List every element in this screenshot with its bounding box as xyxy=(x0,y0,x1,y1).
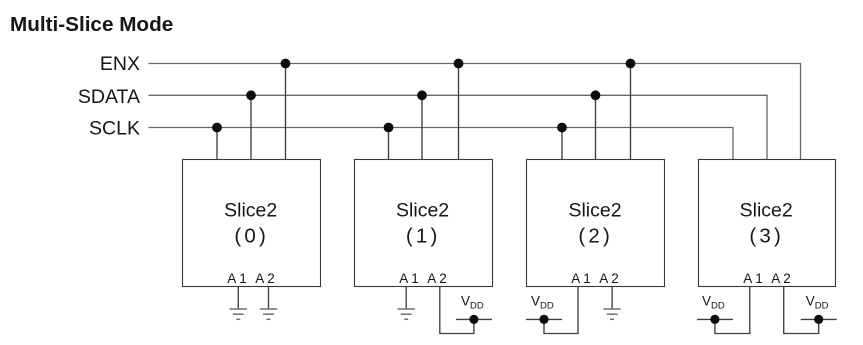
svg-text:Slice2: Slice2 xyxy=(396,199,449,221)
wire ENX pin slice0 xyxy=(285,64,287,160)
svg-text:A 2: A 2 xyxy=(599,271,619,286)
svg-text:SDATA: SDATA xyxy=(78,86,140,108)
wire SDATA bus xyxy=(149,95,768,159)
svg-text:(2): (2) xyxy=(578,224,613,247)
svg-text:A 1: A 1 xyxy=(227,271,247,286)
svg-text:A 1: A 1 xyxy=(743,271,763,286)
wire A2 U2 xyxy=(611,287,613,309)
wire A2 U0 xyxy=(268,287,270,309)
power VDD at A2 U3 xyxy=(801,294,837,325)
svg-text:ENX: ENX xyxy=(100,53,140,75)
svg-text:A 2: A 2 xyxy=(255,271,275,286)
junction SDATA slice0 xyxy=(246,90,256,100)
svg-text:V: V xyxy=(806,294,815,309)
junction SCLK slice0 xyxy=(212,123,222,133)
svg-text:DD: DD xyxy=(711,301,725,312)
wire SCLK bus xyxy=(149,128,734,160)
wire SDATA pin slice0 xyxy=(250,95,252,159)
wire SCLK pin slice1 xyxy=(388,128,390,160)
power VDD at A2 U1 xyxy=(456,294,492,325)
svg-text:SCLK: SCLK xyxy=(89,117,140,139)
junction ENX slice0 xyxy=(281,59,291,69)
wire A1 U2 to VDD xyxy=(544,287,578,334)
junction SDATA slice2 xyxy=(591,90,601,100)
svg-text:V: V xyxy=(531,294,540,309)
ground A1 U0 xyxy=(230,309,247,319)
wire ENX pin slice1 xyxy=(458,64,460,160)
junction ENX slice2 xyxy=(626,59,636,69)
junction SCLK slice1 xyxy=(384,123,394,133)
power VDD at A1 U2 xyxy=(526,294,562,325)
svg-text:Slice2: Slice2 xyxy=(568,199,621,221)
svg-text:Slice2: Slice2 xyxy=(740,199,793,221)
power VDD at A1 U3 xyxy=(697,294,733,325)
svg-text:(3): (3) xyxy=(749,224,784,247)
svg-text:(1): (1) xyxy=(406,224,441,247)
wire ENX bus xyxy=(149,64,801,160)
wire A2 U3 to VDD xyxy=(784,287,819,334)
svg-text:A 1: A 1 xyxy=(571,271,591,286)
junction ENX slice1 xyxy=(454,59,464,69)
svg-text:A 2: A 2 xyxy=(427,271,447,286)
block U3 Slice2 (3) xyxy=(699,160,836,287)
block U0 Slice2 (0) xyxy=(183,160,321,287)
svg-text:V: V xyxy=(461,294,470,309)
ground A1 U1 xyxy=(398,309,415,319)
svg-text:DD: DD xyxy=(815,301,829,312)
wire SDATA pin slice2 xyxy=(595,95,597,159)
svg-text:Slice2: Slice2 xyxy=(224,199,277,221)
wire A1 U3 to VDD xyxy=(715,287,750,334)
junction SDATA slice1 xyxy=(417,90,427,100)
wire SCLK pin slice0 xyxy=(216,128,218,160)
wire SCLK pin slice2 xyxy=(561,128,563,160)
ground A2 U2 xyxy=(603,309,620,319)
wire ENX pin slice2 xyxy=(630,64,632,160)
wire A2 U1 to VDD xyxy=(440,287,474,334)
svg-text:DD: DD xyxy=(470,301,484,312)
svg-text:A 2: A 2 xyxy=(771,271,791,286)
svg-text:(0): (0) xyxy=(234,224,269,247)
svg-text:A 1: A 1 xyxy=(399,271,419,286)
svg-text:V: V xyxy=(702,294,711,309)
wire A1 U1 xyxy=(405,287,407,309)
junction SCLK slice2 xyxy=(557,123,567,133)
block U2 Slice2 (2) xyxy=(527,160,665,287)
wire A1 U0 xyxy=(237,287,239,309)
svg-text:Multi-Slice Mode: Multi-Slice Mode xyxy=(10,13,173,36)
block U1 Slice2 (1) xyxy=(355,160,493,287)
wire SDATA pin slice1 xyxy=(421,95,423,159)
ground A2 U0 xyxy=(260,309,277,319)
svg-text:DD: DD xyxy=(540,301,554,312)
